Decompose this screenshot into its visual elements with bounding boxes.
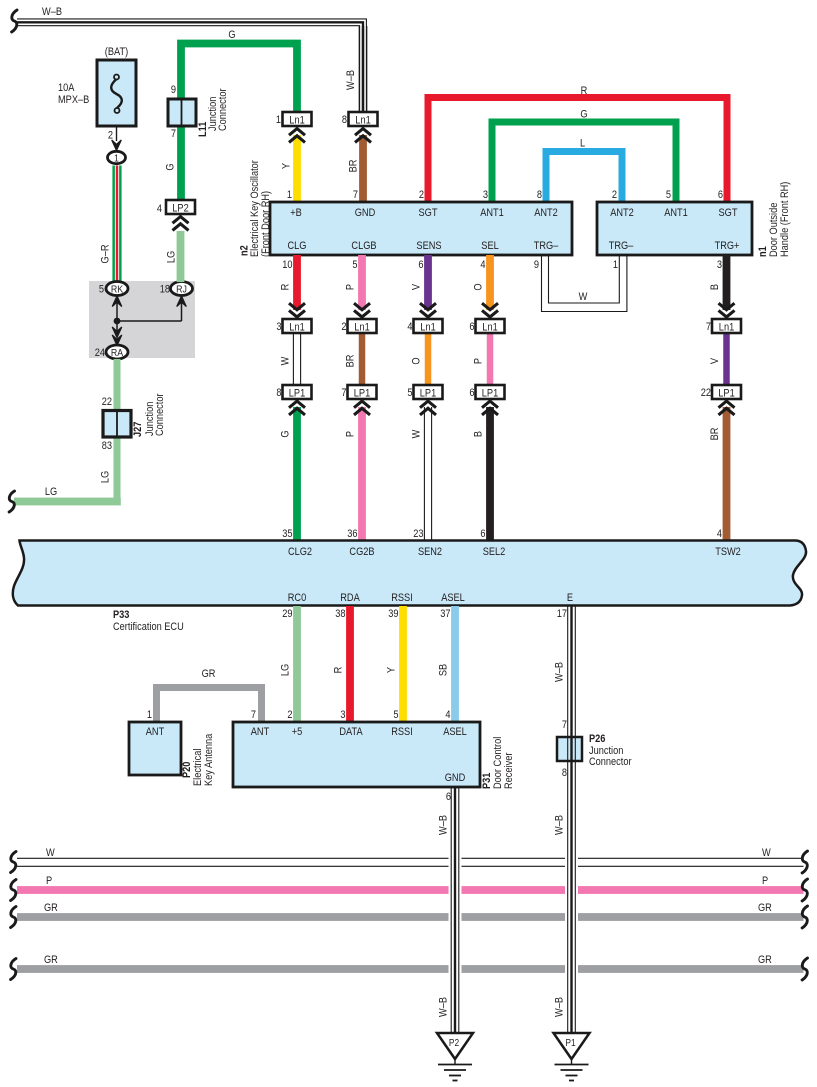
- svg-text:3: 3: [483, 189, 488, 201]
- svg-text:B: B: [709, 284, 721, 290]
- svg-text:7: 7: [562, 719, 567, 731]
- svg-text:ANT2: ANT2: [534, 207, 558, 219]
- svg-text:Handle (Front RH): Handle (Front RH): [779, 182, 791, 257]
- svg-text:7: 7: [353, 189, 358, 201]
- svg-text:3: 3: [340, 709, 345, 721]
- svg-text:RDA: RDA: [340, 592, 360, 604]
- svg-text:6: 6: [418, 259, 423, 271]
- svg-text:G: G: [280, 430, 292, 437]
- svg-text:7: 7: [341, 387, 346, 399]
- svg-text:7: 7: [171, 128, 176, 140]
- svg-text:37: 37: [440, 608, 451, 620]
- svg-text:V: V: [709, 358, 721, 364]
- svg-text:W–B: W–B: [345, 70, 357, 90]
- svg-text:ANT2: ANT2: [610, 207, 634, 219]
- svg-text:W–B: W–B: [438, 997, 450, 1017]
- svg-text:Ln1: Ln1: [355, 115, 371, 127]
- svg-text:4: 4: [407, 321, 412, 333]
- svg-text:LP2: LP2: [172, 203, 189, 215]
- svg-text:ASEL: ASEL: [441, 592, 465, 604]
- svg-text:2: 2: [612, 189, 617, 201]
- svg-text:LP1: LP1: [289, 388, 306, 400]
- svg-text:SENS: SENS: [416, 240, 441, 252]
- svg-text:+B: +B: [290, 207, 302, 219]
- svg-text:29: 29: [282, 608, 293, 620]
- svg-text:SEN2: SEN2: [418, 546, 442, 558]
- svg-text:P: P: [345, 284, 357, 290]
- svg-text:22: 22: [701, 387, 712, 399]
- svg-text:4: 4: [717, 528, 722, 540]
- svg-text:1: 1: [114, 153, 119, 165]
- svg-text:RJ: RJ: [176, 284, 187, 296]
- svg-text:LP1: LP1: [420, 388, 437, 400]
- svg-text:5: 5: [99, 284, 104, 296]
- svg-text:8: 8: [276, 387, 281, 399]
- svg-text:G–R: G–R: [100, 245, 112, 264]
- svg-text:LP1: LP1: [482, 388, 499, 400]
- svg-text:TSW2: TSW2: [715, 546, 741, 558]
- svg-text:(BAT): (BAT): [105, 46, 128, 58]
- svg-text:24: 24: [95, 347, 106, 359]
- svg-text:BR: BR: [709, 428, 721, 441]
- svg-text:38: 38: [335, 608, 346, 620]
- svg-text:LG: LG: [45, 486, 57, 498]
- svg-text:MPX–B: MPX–B: [58, 94, 89, 106]
- svg-text:W–B: W–B: [554, 815, 566, 835]
- svg-text:G: G: [165, 163, 177, 170]
- svg-text:P26: P26: [589, 733, 606, 745]
- svg-text:Connector: Connector: [154, 393, 166, 436]
- svg-text:B: B: [473, 431, 485, 437]
- svg-text:Ln1: Ln1: [289, 115, 305, 127]
- svg-text:(Front Door RH): (Front Door RH): [260, 191, 272, 257]
- svg-text:W: W: [579, 291, 588, 303]
- svg-text:W: W: [280, 356, 292, 365]
- svg-text:1: 1: [287, 189, 292, 201]
- svg-text:2: 2: [287, 709, 292, 721]
- svg-text:SB: SB: [438, 664, 450, 677]
- svg-text:CLG2: CLG2: [288, 546, 312, 558]
- svg-text:SGT: SGT: [719, 207, 738, 219]
- svg-text:TRG–: TRG–: [609, 240, 634, 252]
- svg-text:R: R: [581, 85, 588, 97]
- svg-text:2: 2: [419, 189, 424, 201]
- svg-text:ANT: ANT: [251, 726, 269, 738]
- svg-text:5: 5: [407, 387, 412, 399]
- svg-text:R: R: [280, 284, 292, 291]
- svg-text:GR: GR: [758, 902, 772, 914]
- svg-text:2: 2: [341, 321, 346, 333]
- svg-text:P: P: [762, 875, 768, 887]
- svg-text:GR: GR: [44, 902, 58, 914]
- svg-text:+5: +5: [292, 726, 303, 738]
- svg-text:9: 9: [171, 84, 176, 96]
- svg-text:O: O: [473, 283, 485, 290]
- svg-text:GR: GR: [202, 668, 216, 680]
- svg-text:8: 8: [537, 189, 542, 201]
- svg-text:3: 3: [276, 321, 281, 333]
- svg-text:DATA: DATA: [339, 726, 362, 738]
- svg-text:8: 8: [562, 767, 567, 779]
- svg-text:RK: RK: [111, 284, 124, 296]
- svg-text:J27: J27: [132, 421, 144, 437]
- svg-text:17: 17: [557, 608, 568, 620]
- svg-text:7: 7: [251, 709, 256, 721]
- svg-text:BR: BR: [348, 160, 360, 173]
- svg-text:5: 5: [666, 189, 671, 201]
- svg-text:P: P: [345, 431, 357, 437]
- svg-text:83: 83: [102, 440, 113, 452]
- svg-text:5: 5: [393, 709, 398, 721]
- svg-text:SEL: SEL: [481, 240, 499, 252]
- svg-text:BR: BR: [345, 355, 357, 368]
- svg-text:36: 36: [347, 528, 358, 540]
- svg-text:4: 4: [445, 709, 450, 721]
- svg-text:W–B: W–B: [438, 815, 450, 835]
- svg-text:Connector: Connector: [217, 88, 229, 131]
- svg-text:18: 18: [160, 284, 171, 296]
- svg-text:LP1: LP1: [354, 388, 371, 400]
- svg-text:G: G: [580, 109, 587, 121]
- svg-text:CG2B: CG2B: [349, 546, 374, 558]
- svg-text:RC0: RC0: [288, 592, 307, 604]
- svg-text:6: 6: [446, 791, 451, 803]
- svg-text:W–B: W–B: [554, 662, 566, 682]
- svg-text:Key Antenna: Key Antenna: [203, 733, 215, 786]
- svg-text:GR: GR: [44, 954, 58, 966]
- svg-text:ANT1: ANT1: [664, 207, 688, 219]
- svg-text:RSSI: RSSI: [391, 592, 413, 604]
- svg-text:3: 3: [717, 259, 722, 271]
- svg-text:6: 6: [469, 321, 474, 333]
- svg-text:Certification ECU: Certification ECU: [113, 621, 184, 633]
- svg-text:23: 23: [413, 528, 424, 540]
- svg-text:Receiver: Receiver: [503, 752, 515, 789]
- svg-text:Ln1: Ln1: [354, 322, 370, 334]
- svg-text:Ln1: Ln1: [482, 322, 498, 334]
- svg-text:6: 6: [718, 189, 723, 201]
- svg-text:P1: P1: [565, 1037, 575, 1048]
- svg-text:TRG+: TRG+: [715, 240, 740, 252]
- svg-text:GND: GND: [355, 207, 376, 219]
- svg-text:1: 1: [613, 259, 618, 271]
- svg-text:GND: GND: [445, 772, 466, 784]
- svg-text:Connector: Connector: [589, 756, 632, 768]
- svg-text:Ln1: Ln1: [719, 322, 735, 334]
- svg-text:W–B: W–B: [554, 997, 566, 1017]
- svg-text:GR: GR: [758, 954, 772, 966]
- svg-text:P2: P2: [449, 1037, 459, 1048]
- svg-text:4: 4: [157, 203, 162, 215]
- svg-text:SGT: SGT: [419, 207, 438, 219]
- svg-text:LG: LG: [166, 251, 178, 263]
- svg-text:P: P: [473, 358, 485, 364]
- svg-text:LG: LG: [280, 664, 292, 676]
- svg-text:10A: 10A: [58, 82, 75, 94]
- svg-text:22: 22: [102, 396, 113, 408]
- svg-text:O: O: [411, 357, 423, 364]
- svg-text:ASEL: ASEL: [443, 726, 467, 738]
- svg-text:6: 6: [469, 387, 474, 399]
- svg-text:6: 6: [480, 528, 485, 540]
- svg-text:7: 7: [706, 321, 711, 333]
- svg-text:10: 10: [282, 259, 293, 271]
- svg-text:E: E: [567, 592, 573, 604]
- svg-text:L: L: [580, 138, 585, 150]
- svg-text:R: R: [333, 667, 345, 674]
- svg-text:W: W: [762, 847, 771, 859]
- svg-text:W–B: W–B: [42, 6, 62, 18]
- svg-text:P33: P33: [113, 609, 130, 621]
- svg-text:Ln1: Ln1: [289, 322, 305, 334]
- svg-text:RSSI: RSSI: [391, 726, 413, 738]
- svg-text:5: 5: [352, 259, 357, 271]
- svg-text:4: 4: [480, 259, 485, 271]
- svg-text:W: W: [411, 429, 423, 438]
- svg-text:LP1: LP1: [718, 388, 735, 400]
- svg-text:G: G: [228, 29, 235, 41]
- svg-text:CLGB: CLGB: [351, 240, 376, 252]
- svg-text:CLG: CLG: [288, 240, 307, 252]
- svg-text:ANT: ANT: [146, 726, 164, 738]
- svg-text:35: 35: [282, 528, 293, 540]
- svg-text:LG: LG: [100, 471, 112, 483]
- svg-text:1: 1: [276, 114, 281, 126]
- svg-text:W: W: [46, 847, 55, 859]
- svg-text:ANT1: ANT1: [480, 207, 504, 219]
- svg-text:Y: Y: [281, 163, 293, 169]
- svg-text:P: P: [46, 875, 52, 887]
- svg-text:SEL2: SEL2: [483, 546, 506, 558]
- svg-text:TRG–: TRG–: [534, 240, 559, 252]
- svg-text:39: 39: [388, 608, 399, 620]
- svg-text:RA: RA: [111, 347, 124, 359]
- svg-text:8: 8: [342, 114, 347, 126]
- svg-text:9: 9: [534, 259, 539, 271]
- svg-text:V: V: [411, 284, 423, 290]
- svg-text:1: 1: [147, 709, 152, 721]
- svg-text:Y: Y: [386, 667, 398, 673]
- svg-text:Ln1: Ln1: [420, 322, 436, 334]
